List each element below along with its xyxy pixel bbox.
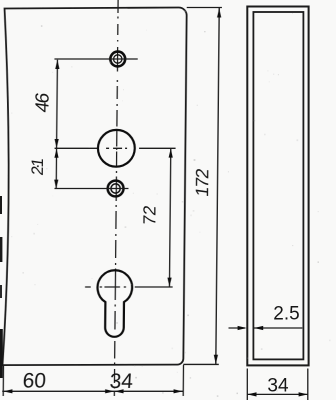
arrow 34 left: [114, 389, 123, 393]
svg-text:172: 172: [192, 167, 212, 198]
extension line top right y=7.5: [187, 7, 222, 9]
large hole circle: [98, 130, 135, 167]
scan artifact: left edge dark strips: [0, 196, 2, 214]
dimension line 60/34 bottom (y=391.3): [2, 390, 183, 392]
svg-text:34: 34: [267, 376, 289, 397]
extension lines below plate for 60/34: [2, 365, 4, 396]
svg-text:60: 60: [22, 370, 47, 393]
svg-text:72: 72: [139, 204, 159, 226]
dimension 2.5: left leader with right-pointing arrow: [229, 327, 246, 329]
arrow 72 top: [169, 148, 173, 157]
arrow 21 top: [54, 149, 58, 158]
svg-text:2.5: 2.5: [273, 304, 299, 325]
hole H1 top: outer bold circle: [110, 52, 125, 67]
side view inner rectangle: [253, 12, 303, 359]
svg-text:34: 34: [109, 370, 134, 393]
arrow 172 top: [217, 8, 221, 18]
side view group (no skew): [229, 7, 309, 400]
vertical centerline (dash-dot segments): [114, 0, 118, 396]
keyhole horizontal centerline y=287 (dash-dot): [85, 286, 173, 288]
large hole horizontal centerline y=148 (dash-dot): [55, 147, 176, 149]
extension lines below side view: [246, 369, 248, 400]
hole H2 horizontal centerline y=188.5: [54, 188, 128, 190]
arrow 34side left: [247, 392, 256, 396]
plate outline (front view, left edge slightly bowed as in scan): [1, 8, 187, 366]
arrow 72 bottom: [167, 278, 171, 287]
hole H2: inner circle: [111, 184, 120, 193]
extension line bottom right y=364.4: [183, 363, 219, 365]
hole H1 top: inner circle: [113, 55, 121, 63]
dimension line 172 (vertical, x=219.3): [216, 8, 219, 364]
arrow 34side right: [299, 392, 308, 396]
arrow 46 top: [55, 60, 59, 69]
ink dot between 2 and 1: [37, 165, 39, 167]
arrow 46 bottom: [54, 139, 58, 148]
arrow 34 right: [174, 389, 183, 393]
dimension 2.5: right leader with left-pointing arrow: [254, 327, 302, 329]
arrow 60 right: [105, 389, 114, 393]
arrow 172 bottom: [214, 355, 218, 365]
arrow 60 left: [3, 389, 12, 393]
keyhole (euro cylinder cutout): [97, 270, 132, 337]
side view outer rectangle: [247, 7, 308, 366]
hole H2: outer bold circle: [108, 181, 124, 197]
dimension line 46 (vertical, x=58): [56, 60, 59, 149]
dimension line 72 (vertical, x=172.2): [169, 148, 170, 287]
dimension line 34 side (y=394.4): [247, 393, 307, 395]
hole H1 horizontal centerline y=59: [54, 58, 137, 60]
dimension line 21 (vertical, x=58): [55, 148, 57, 189]
arrow 21 bottom: [54, 180, 58, 189]
